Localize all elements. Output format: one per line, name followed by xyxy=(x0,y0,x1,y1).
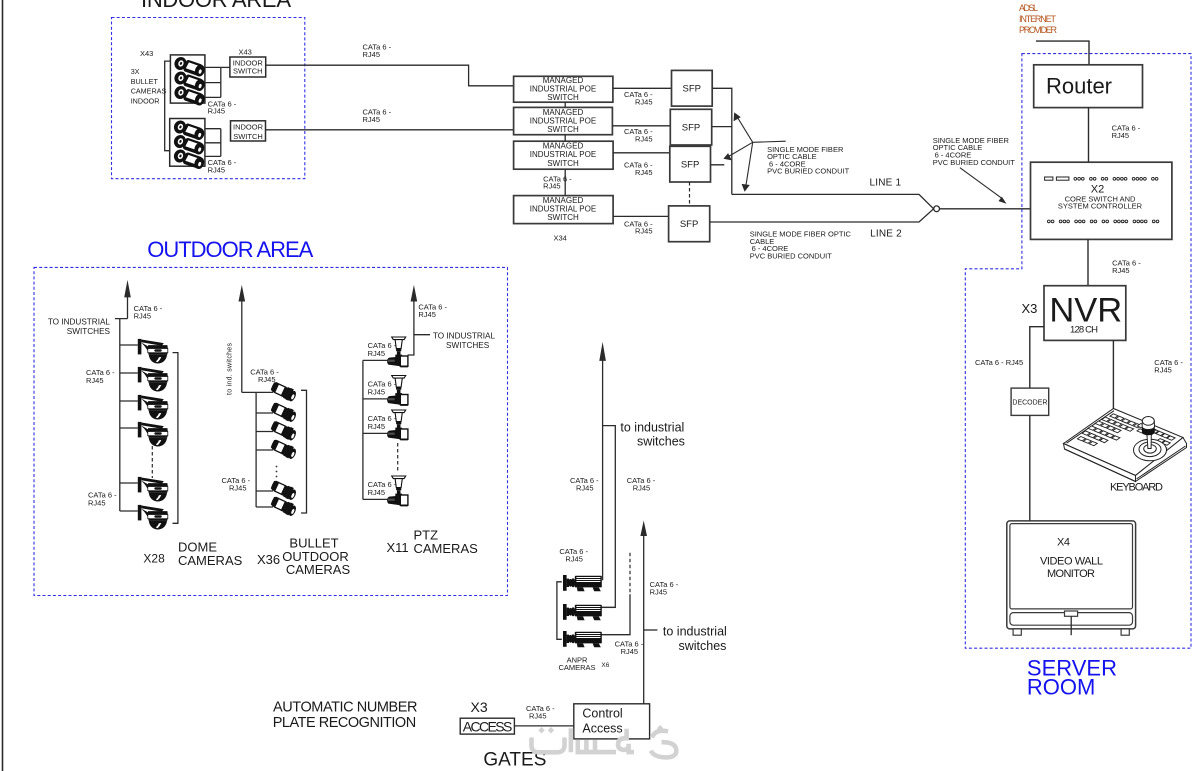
bullet camera branch wires xyxy=(256,391,273,393)
SFP module 1 xyxy=(672,70,713,106)
svg-text:ROOM: ROOM xyxy=(1027,675,1095,700)
control access riser wire C with arrow xyxy=(643,536,645,704)
svg-text:X11: X11 xyxy=(387,540,409,555)
svg-text:RJ45: RJ45 xyxy=(363,115,381,124)
svg-text:to ind. switches: to ind. switches xyxy=(227,343,234,396)
svg-text:switches: switches xyxy=(679,639,727,653)
svg-text:Access: Access xyxy=(582,722,622,736)
svg-text:INTERNET: INTERNET xyxy=(1019,14,1057,24)
bullet trunk wire xyxy=(242,392,256,507)
managed POE switch 2 xyxy=(514,107,613,134)
svg-text:RJ45: RJ45 xyxy=(635,134,653,143)
svg-text:PLATE RECOGNITION: PLATE RECOGNITION xyxy=(273,715,417,731)
svg-text:X43: X43 xyxy=(239,48,252,57)
svg-text:RJ45: RJ45 xyxy=(529,712,547,721)
wire NVR to keyboard xyxy=(1112,340,1114,408)
SFP module 2 xyxy=(670,109,711,145)
ptz trunk wire xyxy=(362,360,364,499)
svg-text:RJ45: RJ45 xyxy=(650,588,668,597)
dashed continuation between ptz cameras xyxy=(397,443,399,473)
wire access to control access xyxy=(514,725,573,727)
svg-text:RJ45: RJ45 xyxy=(88,499,106,508)
wires group2 to collector xyxy=(205,129,221,157)
svg-text:CAMERAS: CAMERAS xyxy=(558,663,595,672)
svg-text:AUTOMATIC NUMBER: AUTOMATIC NUMBER xyxy=(273,700,418,716)
svg-text:LINE 2: LINE 2 xyxy=(870,229,902,240)
managed POE switch 1 xyxy=(514,76,613,102)
dots between bullet cameras xyxy=(276,466,278,478)
SFP module 4 xyxy=(669,206,710,242)
keyboard keys xyxy=(1077,414,1175,450)
svg-text:switches: switches xyxy=(637,435,685,449)
video wall monitor xyxy=(1007,521,1136,635)
tick and label TO INDUSTRIAL SWITCHES ptz xyxy=(414,334,430,336)
svg-text:INDOOR: INDOOR xyxy=(233,123,264,132)
keyboard with joystick xyxy=(34,237,1187,771)
managed POE switch 3 xyxy=(514,141,614,169)
svg-text:RJ45: RJ45 xyxy=(565,555,583,564)
svg-text:RJ45: RJ45 xyxy=(1112,131,1130,140)
ptz cameras x4 xyxy=(387,337,408,367)
managed POE switch 4 xyxy=(514,196,614,224)
dashed continuation between dome cameras xyxy=(151,446,153,478)
svg-text:RJ45: RJ45 xyxy=(1112,266,1130,275)
svg-text:ACCESS: ACCESS xyxy=(463,718,513,734)
svg-text:BULLET: BULLET xyxy=(131,77,159,86)
svg-text:LINE 1: LINE 1 xyxy=(870,178,902,189)
NVR 128 CH xyxy=(1044,286,1126,341)
svg-text:PROVIDER: PROVIDER xyxy=(1019,25,1058,35)
svg-text:RJ45: RJ45 xyxy=(576,484,594,493)
wires POE to SFP xyxy=(612,88,671,216)
svg-text:SWITCHES: SWITCHES xyxy=(67,327,111,336)
dome camera column xyxy=(48,280,243,568)
svg-text:MONITOR: MONITOR xyxy=(1047,568,1095,580)
svg-text:SFP: SFP xyxy=(683,84,701,95)
router xyxy=(1034,65,1143,108)
svg-text:X34: X34 xyxy=(554,234,567,243)
svg-text:X36: X36 xyxy=(257,552,280,567)
svg-text:RJ45: RJ45 xyxy=(134,311,152,320)
svg-text:Control: Control xyxy=(582,707,622,721)
svg-text:SFP: SFP xyxy=(680,219,698,230)
svg-text:SWITCH: SWITCH xyxy=(547,159,579,168)
svg-text:X3: X3 xyxy=(471,699,488,715)
svg-text:RJ45: RJ45 xyxy=(635,227,653,236)
bullet camera column xyxy=(222,285,351,577)
indoor camera group box 1 xyxy=(170,55,205,103)
svg-text:Router: Router xyxy=(1046,74,1112,99)
svg-text:RJ45: RJ45 xyxy=(363,50,381,59)
anpr riser wire A with arrow xyxy=(602,360,604,580)
svg-text:SWITCH: SWITCH xyxy=(547,125,579,134)
dashed riser to anpr cam3 xyxy=(629,553,631,595)
wire core switch to NVR xyxy=(1087,239,1089,285)
svg-text:SWITCH: SWITCH xyxy=(233,67,263,76)
tick and label to industrial switches lower xyxy=(644,629,658,631)
svg-text:SWITCH: SWITCH xyxy=(233,132,263,141)
svg-text:RJ45: RJ45 xyxy=(633,484,651,493)
anpr bracket xyxy=(557,582,562,640)
watermark letter meem xyxy=(611,729,634,752)
svg-text:RJ45: RJ45 xyxy=(418,310,436,319)
svg-text:RJ45: RJ45 xyxy=(86,376,104,385)
ptz column arrow to industrial switches xyxy=(408,301,414,355)
ADSL INTERNET PROVIDER label xyxy=(1019,3,1058,35)
svg-text:INDOOR AREA: INDOOR AREA xyxy=(141,0,291,12)
dome trunk wire xyxy=(119,319,121,511)
bullet cameras x6 xyxy=(269,380,298,402)
dashed link SFP3 to SFP4 xyxy=(689,182,691,206)
ACCESS box xyxy=(460,718,514,734)
indoor area dashed boundary xyxy=(112,18,305,179)
fiber collector from SFP1/SFP2 xyxy=(711,88,732,194)
svg-text:CAMERAS: CAMERAS xyxy=(414,541,479,556)
fiber line to core switch xyxy=(940,208,1031,210)
svg-text:to industrial: to industrial xyxy=(620,421,684,435)
svg-text:X4: X4 xyxy=(1057,536,1070,548)
svg-text:X3: X3 xyxy=(1022,301,1038,316)
svg-text:RJ45: RJ45 xyxy=(621,647,639,656)
bracket joining camera groups xyxy=(165,61,170,151)
bullet column arrow to industrial switches xyxy=(241,301,243,392)
POE interconnect wires xyxy=(564,102,566,195)
indoor switch 2 xyxy=(231,121,266,141)
Control Access box xyxy=(574,704,650,739)
wire router to core switch xyxy=(1088,108,1090,163)
svg-text:SWITCH: SWITCH xyxy=(547,93,579,102)
svg-text:TO INDUSTRIAL: TO INDUSTRIAL xyxy=(433,332,496,341)
svg-text:RJ45: RJ45 xyxy=(543,182,561,191)
svg-text:VIDEO WALL: VIDEO WALL xyxy=(1040,555,1103,567)
wires group1 to collector xyxy=(205,67,221,97)
svg-text:KEYBOARD: KEYBOARD xyxy=(1110,482,1163,494)
svg-text:SYSTEM CONTROLLER: SYSTEM CONTROLLER xyxy=(1058,202,1143,211)
svg-text:SFP: SFP xyxy=(681,159,699,170)
watermark letter ta cup xyxy=(532,738,565,753)
ANPR cameras x3 xyxy=(563,575,602,591)
junction node circle xyxy=(934,206,940,212)
wire indoor switch1 to POE switch1 xyxy=(266,65,514,86)
keyboard joystick xyxy=(1134,417,1167,461)
svg-text:DECODER: DECODER xyxy=(1012,399,1047,406)
svg-text:CAMERAS: CAMERAS xyxy=(131,87,167,96)
svg-text:to industrial: to industrial xyxy=(663,625,727,639)
svg-text:PVC BURIED CONDUIT: PVC BURIED CONDUIT xyxy=(767,167,850,176)
dome camera branch wires xyxy=(120,344,138,346)
svg-text:RJ45: RJ45 xyxy=(229,484,247,493)
dome column arrow to industrial switches xyxy=(115,297,128,319)
svg-text:128 CH: 128 CH xyxy=(1070,324,1098,335)
wire collector1 to indoor switch 1 xyxy=(221,66,230,68)
dome column bracket xyxy=(173,353,178,524)
bullet column bracket xyxy=(301,390,307,513)
decoder xyxy=(1011,388,1049,415)
annotation arrow to fiber line xyxy=(960,168,1001,198)
wire NVR to decoder xyxy=(1030,327,1044,388)
svg-text:X28: X28 xyxy=(143,552,165,566)
SERVER ROOM dashed boundary xyxy=(965,54,1191,649)
ptz camera branch wires xyxy=(363,359,387,361)
wire ADSL to router xyxy=(1036,41,1089,65)
svg-text:RJ45: RJ45 xyxy=(635,97,653,106)
anpr camera wires xyxy=(601,606,615,608)
svg-text:RJ45: RJ45 xyxy=(368,422,386,431)
svg-text:RJ45: RJ45 xyxy=(208,107,226,116)
fiber LINE 1 xyxy=(732,194,934,208)
page frame left border xyxy=(2,0,4,771)
3x bullet cameras indoor group 1 xyxy=(173,55,207,78)
watermark letter alef xyxy=(569,728,574,752)
SFP module 3 xyxy=(670,146,711,182)
3x bullet cameras indoor group 2 xyxy=(172,119,206,142)
svg-text:PVC BURIED CONDUIT: PVC BURIED CONDUIT xyxy=(933,158,1016,167)
svg-text:PVC BURIED CONDUIT: PVC BURIED CONDUIT xyxy=(750,251,833,260)
watermark letter kha xyxy=(652,731,668,738)
wire decoder to monitor xyxy=(1029,415,1031,521)
watermark letter seen teeth xyxy=(576,740,612,753)
GATES / ANPR section xyxy=(273,342,727,771)
svg-text:RJ45: RJ45 xyxy=(258,375,276,384)
core switch and system controller xyxy=(1031,162,1172,239)
svg-text:SWITCHES: SWITCHES xyxy=(446,341,490,350)
svg-text:INDOOR: INDOOR xyxy=(131,96,160,105)
indoor switch 1 xyxy=(230,57,266,77)
outdoor area dashed boundary xyxy=(34,267,508,595)
fiber LINE 2 xyxy=(710,209,934,222)
svg-text:SFP: SFP xyxy=(682,122,700,133)
svg-text:CATa 6 - RJ45: CATa 6 - RJ45 xyxy=(975,358,1023,367)
svg-text:RJ45: RJ45 xyxy=(635,168,653,177)
indoor camera group box 2 xyxy=(170,119,205,167)
svg-text:OUTDOOR AREA: OUTDOOR AREA xyxy=(147,237,313,262)
keyboard body xyxy=(1064,409,1187,482)
svg-text:RJ45: RJ45 xyxy=(1154,365,1172,374)
svg-text:CAMERAS: CAMERAS xyxy=(178,553,243,568)
fiber annotation arrows xyxy=(723,112,785,191)
dome cameras x6 xyxy=(138,339,168,364)
svg-text:TO INDUSTRIAL: TO INDUSTRIAL xyxy=(48,318,111,327)
svg-text:CAMERAS: CAMERAS xyxy=(286,562,351,577)
svg-text:RJ45: RJ45 xyxy=(208,165,226,174)
svg-text:RJ45: RJ45 xyxy=(368,349,386,358)
svg-text:SWITCH: SWITCH xyxy=(547,213,579,222)
wire indoor switch2 to POE switch2 xyxy=(266,129,514,131)
watermark xyxy=(532,725,677,757)
svg-text:RJ45: RJ45 xyxy=(368,387,386,396)
PTZ camera column xyxy=(363,285,496,556)
svg-text:X6: X6 xyxy=(601,662,609,669)
svg-text:X43: X43 xyxy=(140,49,153,58)
svg-text:3X: 3X xyxy=(131,67,140,76)
svg-text:ADSL: ADSL xyxy=(1019,3,1038,13)
anpr riser wire B xyxy=(601,426,615,608)
svg-text:RJ45: RJ45 xyxy=(368,488,386,497)
